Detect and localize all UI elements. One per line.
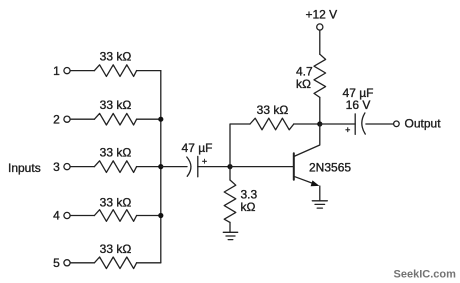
input terminal 3: [53, 160, 70, 174]
wire: [198, 166, 230, 168]
wire summing bus: [160, 71, 162, 263]
wire: [366, 123, 394, 125]
wire: [137, 118, 161, 120]
wire: [161, 166, 187, 168]
svg-text:33 kΩ: 33 kΩ: [100, 242, 132, 256]
resistor R3 33 kohm: [94, 145, 136, 172]
resistor R6 3.3 kohm: [224, 167, 257, 233]
resistor R5 33 kohm: [94, 242, 136, 268]
wire: [230, 166, 294, 168]
ground: [312, 201, 327, 208]
svg-text:SeekIC.com: SeekIC.com: [394, 269, 457, 281]
wire: [137, 215, 161, 217]
svg-text:kΩ: kΩ: [296, 77, 311, 91]
resistor R1 33 kohm: [94, 49, 136, 76]
svg-text:16 V: 16 V: [346, 98, 371, 112]
input terminal 4: [53, 209, 70, 223]
node collector junction: [317, 121, 322, 126]
junction: [158, 117, 163, 122]
capacitor C1 47uF: [182, 141, 213, 177]
resistor R4 33 kohm: [94, 196, 136, 222]
ground: [223, 232, 237, 239]
svg-text:33 kΩ: 33 kΩ: [100, 98, 132, 112]
svg-text:33 kΩ: 33 kΩ: [100, 196, 132, 210]
svg-text:47 µF: 47 µF: [182, 141, 213, 155]
svg-text:kΩ: kΩ: [241, 200, 256, 214]
junction: [158, 213, 163, 218]
svg-text:33 kΩ: 33 kΩ: [257, 103, 289, 117]
transistor Q1 2N3565: [294, 124, 352, 201]
svg-text:+: +: [202, 157, 207, 167]
wire: [70, 70, 94, 72]
wire: [70, 118, 94, 120]
power terminal +12V: [305, 8, 337, 31]
output terminal: [394, 117, 442, 131]
wire: [70, 166, 94, 168]
wire: [319, 30, 321, 54]
svg-text:33 kΩ: 33 kΩ: [100, 49, 132, 63]
svg-text:Output: Output: [405, 117, 442, 131]
svg-text:1: 1: [53, 64, 60, 78]
input terminal 1: [53, 64, 70, 78]
svg-text:3: 3: [53, 160, 60, 174]
input terminal 2: [53, 112, 70, 126]
wire feedback left: [230, 124, 250, 167]
wire: [294, 123, 320, 125]
input terminal 5: [53, 256, 70, 270]
junction: [158, 164, 163, 169]
svg-text:2N3565: 2N3565: [309, 161, 351, 175]
resistor R7 4.7 kohm: [296, 54, 326, 97]
svg-text:Inputs: Inputs: [8, 161, 41, 175]
wire: [320, 123, 355, 125]
node base junction: [227, 164, 232, 169]
wire: [319, 97, 321, 124]
wire: [70, 262, 94, 264]
svg-text:+12 V: +12 V: [305, 8, 337, 22]
capacitor C2 47uF 16V: [343, 86, 374, 135]
wire: [70, 215, 94, 217]
resistor R8 33 kohm feedback: [250, 103, 294, 130]
wire: [137, 70, 161, 72]
svg-text:33 kΩ: 33 kΩ: [100, 145, 132, 159]
wire: [137, 262, 161, 264]
svg-text:4: 4: [53, 209, 60, 223]
svg-text:+: +: [345, 125, 350, 135]
svg-text:2: 2: [53, 112, 60, 126]
resistor R2 33 kohm: [94, 98, 136, 125]
wire: [137, 166, 161, 168]
svg-text:5: 5: [53, 256, 60, 270]
